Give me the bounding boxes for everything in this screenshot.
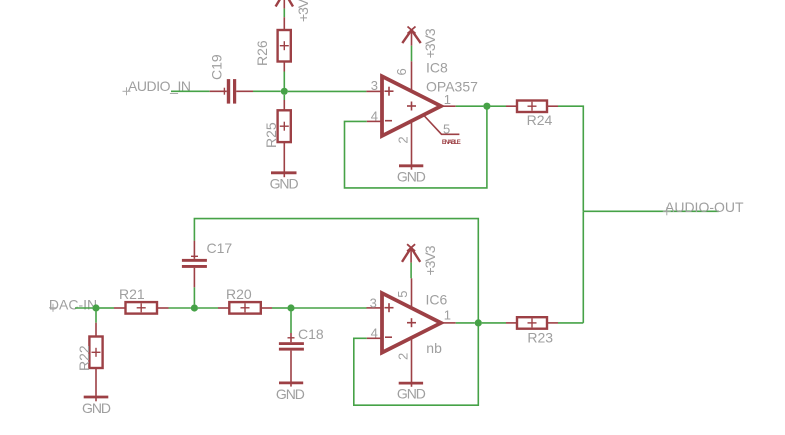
svg-text:C18: C18 [298, 326, 324, 342]
svg-text:GND: GND [270, 176, 299, 192]
wire +3V3 P3 to IC6 pin5 [410, 263, 412, 279]
svg-text:R25: R25 [263, 122, 279, 148]
svg-text:3: 3 [371, 78, 378, 93]
svg-text:R24: R24 [527, 112, 553, 128]
resistor R26 [278, 17, 291, 71]
ground GND (R25) [271, 171, 297, 174]
resistor R21 [114, 302, 169, 314]
wire node C down to R22 [95, 312, 97, 323]
wire +3V3 P2 to IC8 pin6 [411, 46, 413, 62]
power +3V3 P3 (IC6) [402, 244, 420, 262]
wire R21 to node D [169, 307, 191, 309]
resistor R22 [89, 323, 102, 402]
wire AUDIO_IN to C19 [171, 90, 210, 92]
wire AUDIO-OUT [583, 210, 719, 212]
ground GND (R22) [84, 396, 109, 399]
wire R26 to node A [283, 72, 285, 89]
pin cross AUDIO-OUT [663, 207, 671, 215]
ground GND (IC6) [399, 382, 423, 385]
wire node A to R25 [283, 95, 285, 100]
wire out rail down to R23 [582, 211, 584, 323]
svg-text:GND: GND [276, 386, 305, 402]
svg-text:1: 1 [444, 308, 451, 323]
svg-text:GND: GND [397, 169, 426, 185]
svg-text:6: 6 [394, 68, 409, 75]
svg-text:R23: R23 [527, 330, 553, 346]
node D junction [191, 304, 198, 311]
svg-text:R21: R21 [119, 286, 145, 302]
svg-text:5: 5 [443, 122, 450, 137]
svg-text:R22: R22 [76, 345, 92, 371]
wire C19 to node A [253, 90, 281, 92]
op-amp IC6 [367, 278, 456, 387]
feedback wire IC8 pin4 loop [345, 106, 487, 188]
svg-text:2: 2 [396, 353, 411, 360]
svg-text:ENABLE: ENABLE [442, 140, 461, 146]
svg-text:4: 4 [371, 109, 378, 124]
capacitor C17 [182, 241, 207, 288]
resistor R24 [506, 101, 558, 113]
svg-text:AUDIO-OUT: AUDIO-OUT [665, 199, 744, 215]
wire node C to R21 [100, 307, 115, 309]
resistor R23 [506, 317, 558, 329]
wire R24 to out rail [558, 106, 583, 211]
svg-text:IC8: IC8 [426, 60, 448, 76]
svg-text:R20: R20 [226, 286, 252, 302]
svg-text:C19: C19 [209, 54, 225, 80]
svg-text:R26: R26 [254, 40, 270, 66]
node E junction [475, 319, 482, 326]
wire +3V3 P1 to R26 [283, 9, 285, 18]
feedback wire IC6 pin4 loop [354, 323, 479, 405]
svg-text:DAC-IN: DAC-IN [49, 296, 97, 312]
node A junction [281, 88, 288, 95]
wire node B to R24 [490, 105, 506, 107]
power +3V3 P2 (IC8) [402, 27, 420, 46]
power +3V3 P1 (top left, clipped) [276, 0, 293, 9]
op-amp IC8 [366, 61, 459, 170]
wire node E2 to IC6 pin3 [295, 307, 367, 309]
wire node E to R23 [482, 322, 506, 324]
pin cross AUDIO_IN [123, 87, 131, 95]
wire node D to R20 [198, 307, 218, 309]
svg-text:+3V3: +3V3 [422, 28, 438, 58]
svg-text:2: 2 [396, 136, 411, 143]
svg-text:IC6: IC6 [426, 292, 448, 308]
svg-text:3: 3 [370, 295, 377, 310]
node E2 junction [287, 304, 294, 311]
wire IC8 output to node B [456, 105, 484, 107]
ground GND (C18) [279, 381, 303, 384]
svg-text:4: 4 [371, 325, 378, 340]
svg-text:C17: C17 [207, 240, 233, 256]
node B junction [483, 103, 490, 110]
wire node E2 down to C18 [290, 312, 292, 334]
wire node A to IC8 pin3 [288, 90, 367, 92]
node C junction [92, 304, 99, 311]
ground GND (IC8) [399, 164, 423, 167]
wire R23 to out rail [558, 322, 583, 324]
svg-text:nb: nb [426, 340, 442, 356]
svg-text:5: 5 [395, 290, 410, 297]
svg-text:GND: GND [82, 400, 111, 416]
svg-text:+3V3: +3V3 [422, 245, 438, 275]
wire node D up to C17 [193, 287, 195, 304]
resistor R20 [218, 302, 272, 314]
wire R20 to node E2 [272, 307, 288, 309]
wire DAC-IN to node C [75, 307, 93, 309]
capacitor C19 [210, 79, 253, 104]
wire IC6 output to node E [456, 322, 475, 324]
resistor R25 [278, 100, 291, 177]
svg-text:GND: GND [397, 385, 426, 401]
wire C17 top run to node E [194, 219, 478, 323]
capacitor C18 [279, 333, 304, 387]
svg-text:OPA357: OPA357 [426, 79, 478, 95]
svg-text:+3V3: +3V3 [295, 0, 311, 22]
pin cross DAC-IN [49, 304, 57, 312]
